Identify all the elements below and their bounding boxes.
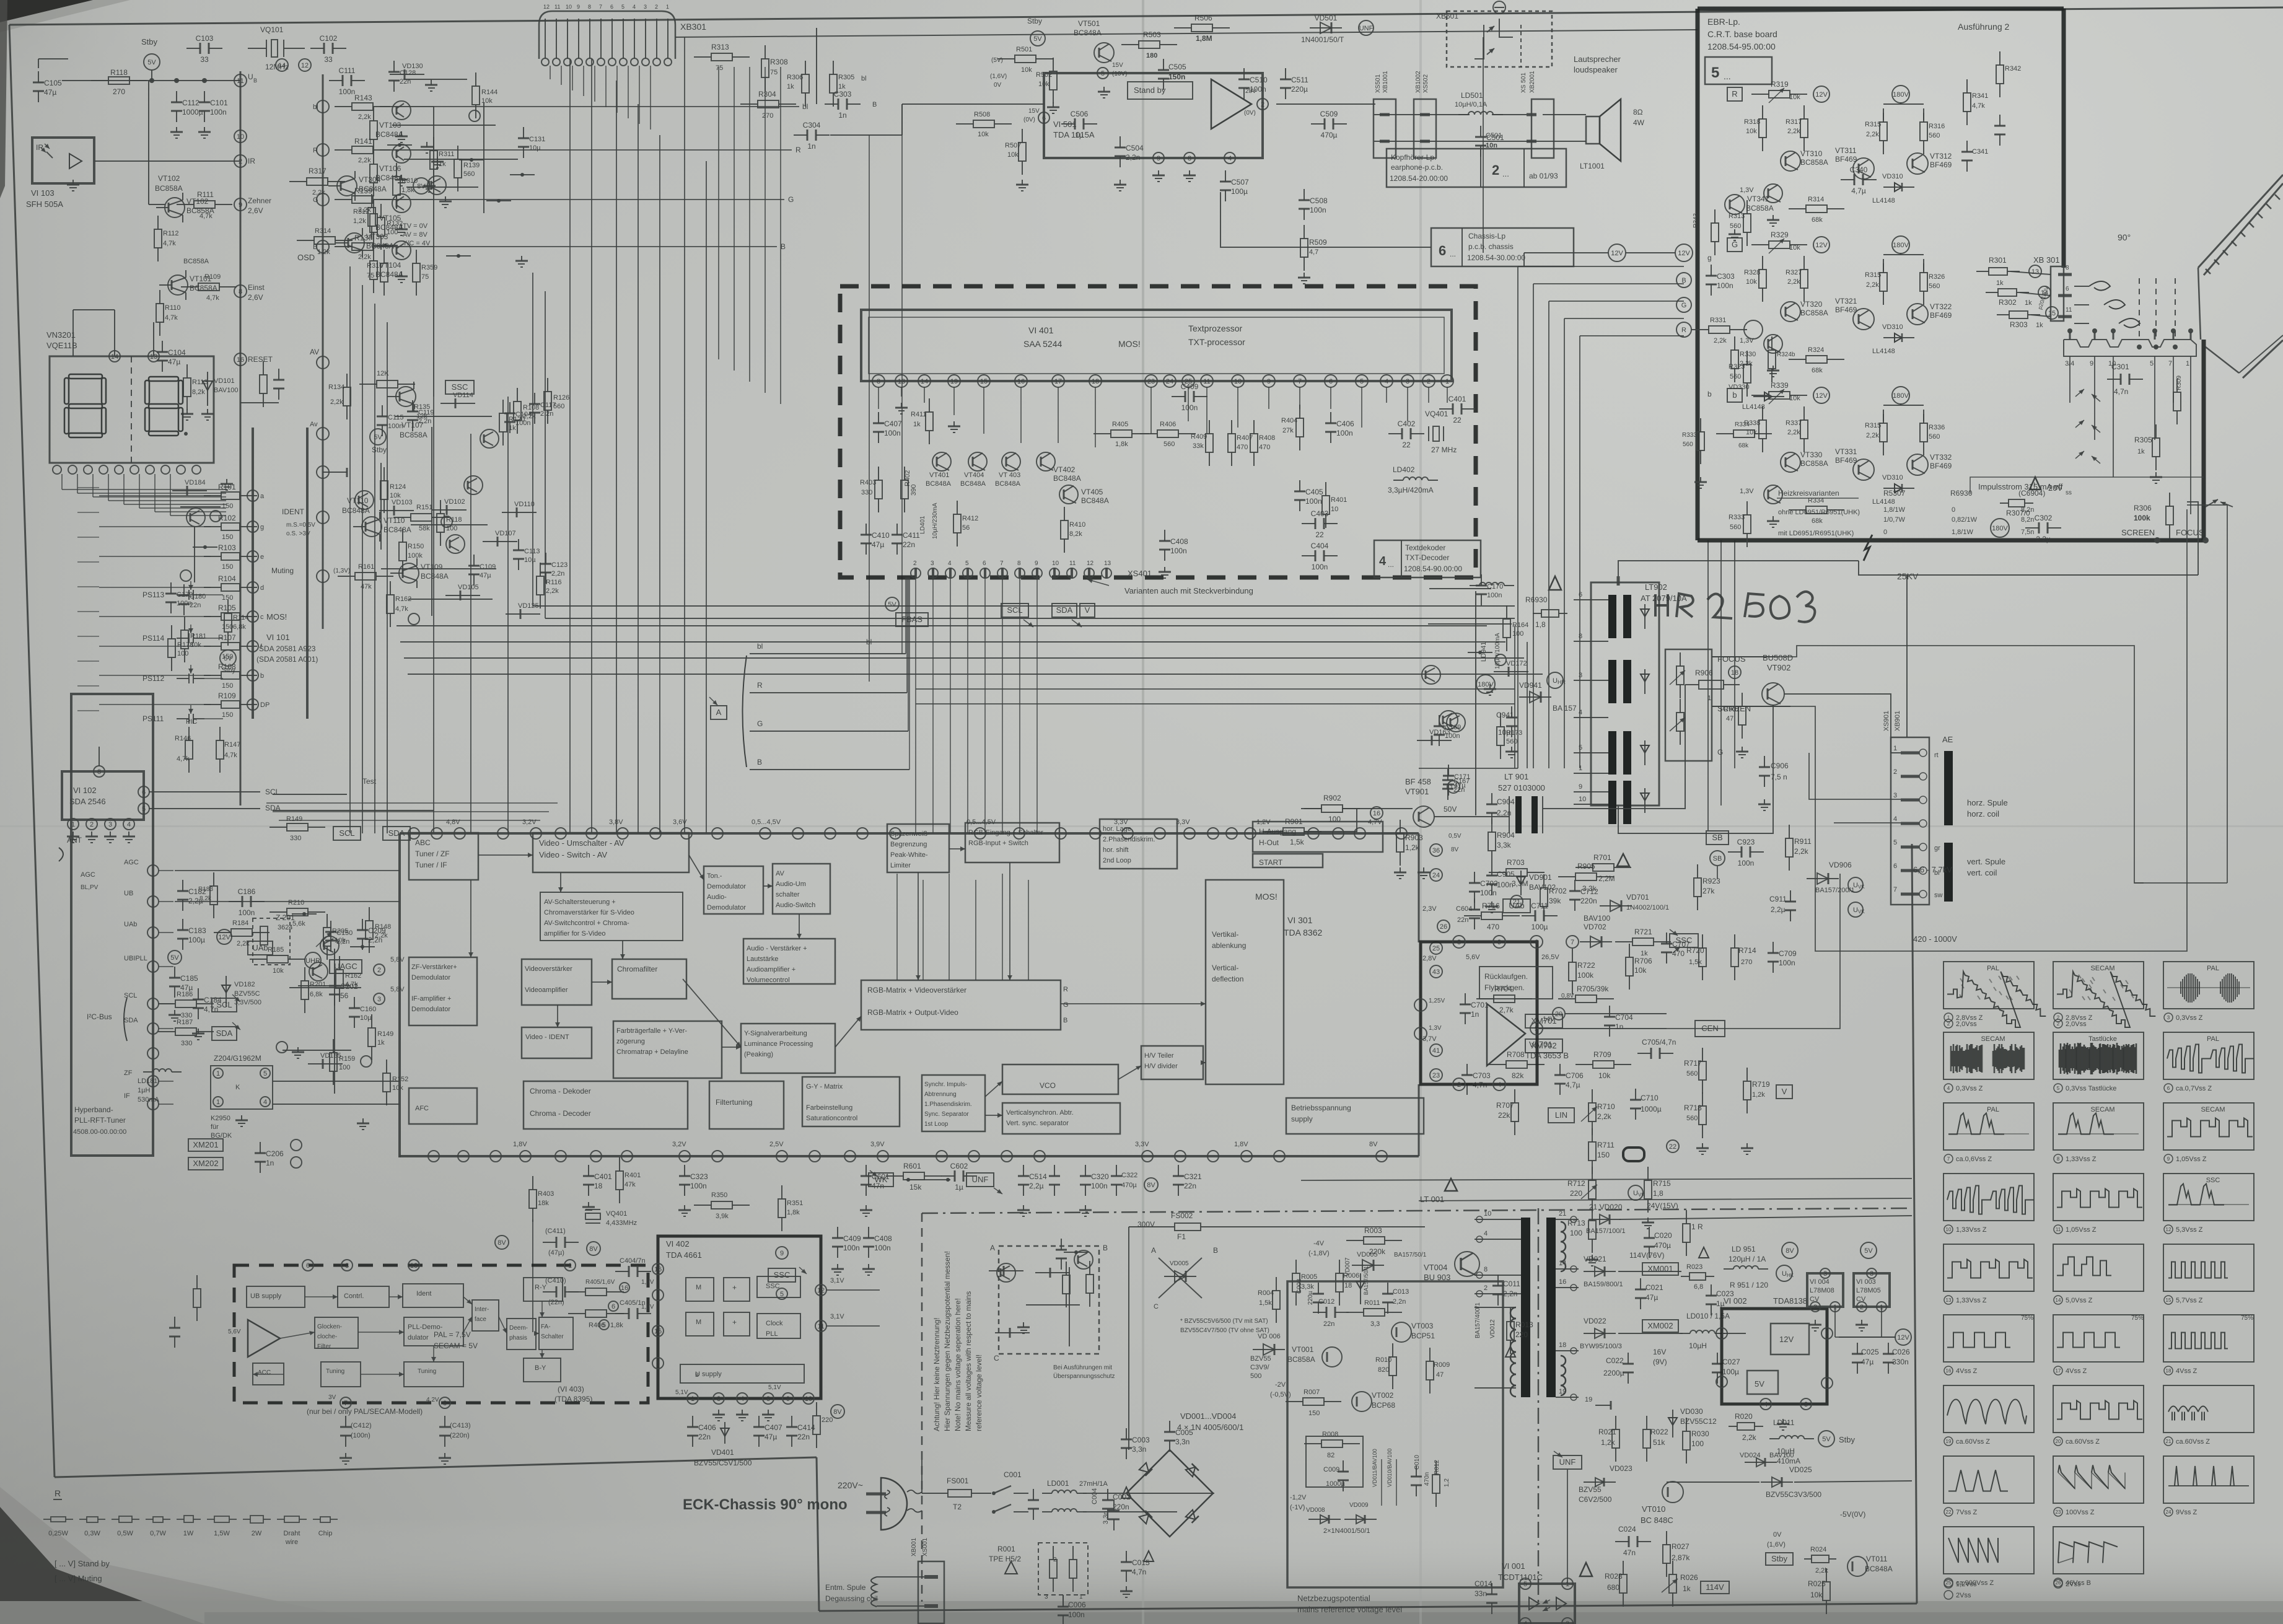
capacitor C005 xyxy=(1169,1421,1170,1432)
block xyxy=(1002,1064,1118,1094)
transistor VT405 xyxy=(1059,485,1078,504)
CRT socket strip xyxy=(2064,340,2196,356)
block B-Y xyxy=(524,1358,561,1382)
svg-text:R023: R023 xyxy=(1686,1263,1702,1271)
capacitor C703 xyxy=(1466,1064,1468,1075)
svg-text:14: 14 xyxy=(921,378,928,385)
svg-text:TDA 3653 B: TDA 3653 B xyxy=(1525,1051,1569,1060)
svg-text:0: 0 xyxy=(1952,506,1955,514)
svg-text:Flybackgen.: Flybackgen. xyxy=(1484,983,1525,992)
svg-text:2: 2 xyxy=(913,560,917,567)
svg-text:1,33Vss Z: 1,33Vss Z xyxy=(2066,1156,2097,1163)
svg-text:5,1V: 5,1V xyxy=(675,1389,688,1396)
connector XS501/XB2001 xyxy=(1531,99,1554,158)
svg-text:3,3k: 3,3k xyxy=(1301,1283,1314,1291)
svg-text:4: 4 xyxy=(1523,1620,1527,1624)
oscillogram 10 xyxy=(1943,1174,2034,1221)
resistor R105 xyxy=(204,616,221,617)
svg-text:120µH / 1A: 120µH / 1A xyxy=(1729,1255,1766,1263)
svg-text:R143: R143 xyxy=(354,94,372,102)
svg-text:10: 10 xyxy=(1484,1210,1491,1218)
svg-text:Tuning: Tuning xyxy=(326,1368,344,1375)
svg-text:10k: 10k xyxy=(1789,395,1800,402)
svg-text:+: + xyxy=(732,1283,737,1292)
svg-text:(C6904): (C6904) xyxy=(2018,489,2045,498)
svg-text:27mH/1A: 27mH/1A xyxy=(1079,1480,1108,1488)
wire xyxy=(408,599,493,600)
diode VD006 xyxy=(1253,1349,1285,1350)
svg-text:L78M08: L78M08 xyxy=(1810,1287,1834,1294)
svg-text:5V: 5V xyxy=(1864,1247,1873,1255)
svg-text:100k: 100k xyxy=(408,552,423,560)
node pin 2 xyxy=(210,511,221,522)
svg-text:...: ... xyxy=(1724,71,1731,81)
node xyxy=(317,356,329,369)
svg-text:6: 6 xyxy=(611,1303,615,1310)
capacitor C179 xyxy=(170,582,172,594)
node SSC xyxy=(768,1268,795,1282)
svg-text:C020: C020 xyxy=(1654,1231,1672,1240)
wire display pin fan xyxy=(61,474,63,489)
svg-text:XB001: XB001 xyxy=(911,1538,918,1556)
svg-text:R210: R210 xyxy=(288,899,304,906)
capacitor C209 xyxy=(362,919,363,930)
svg-text:4,7: 4,7 xyxy=(1309,248,1318,256)
svg-text:2,3V: 2,3V xyxy=(1422,905,1437,913)
svg-text:R6930: R6930 xyxy=(1525,595,1548,604)
transistor VT341 xyxy=(1725,195,1745,214)
capacitor C507 xyxy=(1225,170,1226,182)
svg-text:FS001: FS001 xyxy=(947,1477,969,1485)
svg-text:VD906: VD906 xyxy=(1829,861,1852,869)
svg-text:5: 5 xyxy=(142,805,146,813)
resistor R118 xyxy=(440,500,441,514)
svg-text:Note! No mains voltage sepe: Note! No mains voltage seperation here! xyxy=(953,1298,962,1431)
svg-text:C507: C507 xyxy=(1231,178,1249,187)
svg-text:SCREEN: SCREEN xyxy=(2121,528,2155,537)
node 8 xyxy=(94,766,105,777)
svg-text:C405: C405 xyxy=(1305,488,1323,496)
svg-text:...: ... xyxy=(1388,560,1394,569)
svg-text:H/V divider: H/V divider xyxy=(1144,1063,1178,1070)
svg-text:R141: R141 xyxy=(354,137,372,146)
block VI403 PAL/SECAM dashed xyxy=(234,1265,648,1403)
svg-text:560: 560 xyxy=(1730,373,1741,380)
node U xyxy=(1547,672,1563,688)
svg-text:VD310: VD310 xyxy=(1882,474,1903,481)
ground xyxy=(1085,1205,1086,1210)
svg-text:BF469: BF469 xyxy=(1835,155,1857,164)
svg-text:VT402: VT402 xyxy=(1053,465,1076,474)
svg-text:VD010/BAV100: VD010/BAV100 xyxy=(1387,1449,1393,1487)
transistor VT331 xyxy=(1853,459,1874,480)
svg-text:B: B xyxy=(1213,1246,1218,1255)
ground xyxy=(1773,366,1774,371)
svg-text:R001: R001 xyxy=(997,1545,1015,1553)
svg-text:2.Phasendiskrim.: 2.Phasendiskrim. xyxy=(1103,836,1155,843)
node G xyxy=(1676,297,1691,312)
svg-text:Stby: Stby xyxy=(1839,1435,1856,1444)
svg-text:G: G xyxy=(313,196,318,204)
svg-text:Muting: Muting xyxy=(271,566,294,575)
svg-text:11: 11 xyxy=(1203,378,1210,385)
svg-text:C506: C506 xyxy=(1071,110,1089,118)
capacitor C340 xyxy=(1841,179,1854,180)
svg-text:R711: R711 xyxy=(1597,1141,1615,1149)
svg-text:150: 150 xyxy=(222,533,233,541)
svg-text:UAb: UAb xyxy=(124,921,137,928)
capacitor C303 xyxy=(825,103,838,105)
transistor VT102 xyxy=(165,198,185,217)
svg-text:3,3n: 3,3n xyxy=(1102,1511,1110,1524)
svg-text:68k: 68k xyxy=(1812,517,1823,525)
wire mains isolation boundary xyxy=(922,1208,1912,1213)
svg-text:1: 1 xyxy=(1419,1030,1422,1038)
svg-text:1,33Vss Z: 1,33Vss Z xyxy=(1956,1226,1987,1234)
svg-text:C401: C401 xyxy=(594,1172,612,1181)
svg-text:114V(76V): 114V(76V) xyxy=(1629,1251,1664,1260)
block Tuning xyxy=(321,1362,361,1387)
svg-text:R316: R316 xyxy=(367,262,383,270)
svg-text:LD402: LD402 xyxy=(1393,465,1415,474)
capacitor C341 xyxy=(1966,141,1968,152)
inductor LD011 xyxy=(1769,1438,1779,1439)
svg-text:VD182: VD182 xyxy=(234,981,255,988)
svg-text:VT341: VT341 xyxy=(1747,195,1769,203)
svg-text:Stby: Stby xyxy=(1027,17,1042,25)
ground xyxy=(72,180,74,185)
transistor VT003 xyxy=(1391,1322,1411,1342)
node xyxy=(317,466,329,478)
wire xyxy=(194,526,195,582)
svg-text:3: 3 xyxy=(1893,792,1897,799)
transistor VT122 xyxy=(480,429,499,448)
svg-text:10µ: 10µ xyxy=(360,1014,372,1022)
svg-text:VI 003: VI 003 xyxy=(1856,1278,1876,1286)
node U xyxy=(1848,902,1863,917)
wire I2C lines xyxy=(273,794,347,795)
svg-text:22n: 22n xyxy=(190,602,201,609)
svg-text:C510: C510 xyxy=(1250,76,1268,84)
svg-text:7: 7 xyxy=(1000,560,1004,567)
node 5 xyxy=(1097,68,1108,79)
svg-text:6: 6 xyxy=(983,560,986,567)
node 14 xyxy=(276,59,288,71)
svg-text:22n: 22n xyxy=(1323,1320,1334,1328)
capacitor C015 xyxy=(1126,1551,1127,1562)
inductor LD010 xyxy=(1680,1333,1690,1334)
svg-text:2,2k: 2,2k xyxy=(358,113,371,121)
svg-text:Chassis-Lp: Chassis-Lp xyxy=(1468,232,1505,240)
svg-text:10k: 10k xyxy=(190,641,201,649)
svg-text:82: 82 xyxy=(1327,1452,1334,1459)
svg-text:C131: C131 xyxy=(529,136,545,143)
svg-text:R408: R408 xyxy=(1259,434,1275,442)
svg-text:100n: 100n xyxy=(874,1244,891,1252)
ground xyxy=(91,832,92,836)
svg-text:FOCUS: FOCUS xyxy=(1717,654,1746,664)
svg-text:SDA 20581 A923: SDA 20581 A923 xyxy=(259,644,316,653)
svg-text:5: 5 xyxy=(1523,1581,1527,1588)
svg-text:R150: R150 xyxy=(408,543,424,550)
transistor VT331 xyxy=(1764,485,1782,504)
capacitor C706 xyxy=(1559,1064,1561,1075)
svg-text:VD702: VD702 xyxy=(1584,923,1606,931)
svg-text:R022: R022 xyxy=(1650,1428,1668,1436)
svg-text:6: 6 xyxy=(1439,243,1446,258)
svg-text:C: C xyxy=(994,1354,999,1363)
svg-text:Hier Spannungen gegen Netzb: Hier Spannungen gegen Netzbezugspotentia… xyxy=(943,1251,952,1431)
svg-text:10: 10 xyxy=(1052,560,1059,567)
svg-text:7: 7 xyxy=(2168,360,2172,367)
wire segment xyxy=(350,946,375,947)
svg-text:C711: C711 xyxy=(1531,902,1548,910)
svg-text:ca.0,7Vss Z: ca.0,7Vss Z xyxy=(2176,1085,2212,1092)
svg-text:R: R xyxy=(1681,327,1686,334)
svg-text:3,3n: 3,3n xyxy=(1175,1437,1190,1446)
svg-text:SSC: SSC xyxy=(766,1283,780,1290)
svg-text:H-Out: H-Out xyxy=(1259,838,1279,847)
svg-text:15k: 15k xyxy=(909,1183,922,1192)
svg-text:XB2001: XB2001 xyxy=(1529,71,1536,93)
capacitor C409 xyxy=(837,1227,838,1238)
node 2 xyxy=(234,155,247,167)
svg-text:VT010: VT010 xyxy=(1642,1504,1665,1514)
svg-text:16: 16 xyxy=(1373,810,1380,817)
capacitor C401 xyxy=(588,1165,589,1176)
svg-text:R714: R714 xyxy=(1738,946,1756,955)
diode VD007 xyxy=(1360,1273,1361,1304)
svg-text:2,2k: 2,2k xyxy=(358,157,371,164)
node xyxy=(317,193,329,206)
svg-text:vert. Spule: vert. Spule xyxy=(1967,857,2005,866)
svg-text:3,3: 3,3 xyxy=(1370,1320,1380,1328)
diode VD125 xyxy=(506,613,540,615)
oscillogram 1 xyxy=(1943,962,2034,1009)
svg-text:100n: 100n xyxy=(843,1244,860,1252)
svg-text:C401: C401 xyxy=(1448,395,1466,403)
ground xyxy=(297,1047,299,1052)
svg-text:supply: supply xyxy=(1291,1115,1313,1123)
node 5V xyxy=(220,650,236,666)
potentiometer FOCUS/SCREEN xyxy=(1665,649,1712,761)
svg-text:AV-Switchcontrol + Chroma-: AV-Switchcontrol + Chroma- xyxy=(544,920,629,927)
svg-text:R112: R112 xyxy=(163,230,178,237)
svg-text:C703: C703 xyxy=(1473,1071,1491,1080)
resistor R124 xyxy=(383,467,385,481)
svg-text:220µ: 220µ xyxy=(1307,1291,1314,1305)
svg-text:6: 6 xyxy=(142,789,146,796)
svg-text:BA157/200/1: BA157/200/1 xyxy=(1815,887,1855,894)
svg-text:C406: C406 xyxy=(1336,419,1354,428)
svg-text:9: 9 xyxy=(239,201,242,209)
svg-text:2: 2 xyxy=(655,4,658,10)
svg-text:VD107: VD107 xyxy=(495,530,516,537)
transistor VT332 xyxy=(1907,454,1928,475)
svg-text:VI 402: VI 402 xyxy=(666,1239,690,1249)
oscillogram 22 xyxy=(1943,1456,2034,1503)
svg-text:(9V): (9V) xyxy=(1653,1358,1667,1366)
svg-text:(1,3V): (1,3V) xyxy=(333,568,350,574)
ground xyxy=(1734,229,1735,234)
svg-text:TDA8138: TDA8138 xyxy=(1773,1296,1807,1306)
ground xyxy=(1120,180,1121,185)
node xyxy=(247,699,258,710)
capacitor C003 xyxy=(1126,1428,1127,1439)
svg-text:BF469: BF469 xyxy=(1930,160,1952,169)
node 36 xyxy=(1430,844,1442,856)
transistor VT403 xyxy=(1002,452,1020,471)
block SSC xyxy=(757,1276,800,1297)
svg-text:MOS!: MOS! xyxy=(1255,892,1277,902)
svg-text:10k: 10k xyxy=(1810,1591,1823,1599)
resistor R195 xyxy=(1089,1261,1090,1275)
diode VD3x0 xyxy=(1883,187,1914,188)
svg-text:cloche-: cloche- xyxy=(317,1333,337,1340)
svg-text:6: 6 xyxy=(1825,1330,1829,1338)
filter Z201 xyxy=(260,926,268,945)
svg-text:VD310: VD310 xyxy=(1882,173,1903,180)
svg-text:SECAM: SECAM xyxy=(2201,1106,2225,1113)
svg-text:0,3Vss Tastlücke: 0,3Vss Tastlücke xyxy=(2066,1085,2116,1092)
svg-text:12: 12 xyxy=(543,4,550,10)
ground xyxy=(401,175,402,180)
diode VD941 xyxy=(1519,696,1551,698)
block Betriebsspannung xyxy=(1286,1098,1424,1134)
svg-text:EBR-Lp.: EBR-Lp. xyxy=(1707,17,1740,27)
diode VD163 xyxy=(1417,740,1452,741)
svg-text:22: 22 xyxy=(1315,530,1324,539)
svg-text:BF 458: BF 458 xyxy=(1405,777,1431,786)
capacitor C101 xyxy=(204,91,205,102)
svg-text:VD941: VD941 xyxy=(1519,681,1542,690)
svg-text:1.Phasendiskrim.: 1.Phasendiskrim. xyxy=(924,1101,972,1108)
svg-text:390: 390 xyxy=(910,485,918,496)
wire G line xyxy=(750,731,908,732)
capacitor C923 xyxy=(1728,851,1742,853)
svg-text:VT002: VT002 xyxy=(1372,1391,1394,1400)
paper edge shadow left xyxy=(0,0,7,198)
oscillogram 16 xyxy=(1943,1315,2034,1362)
svg-text:R508: R508 xyxy=(974,111,990,118)
svg-text:UAGC: UAGC xyxy=(334,962,357,971)
svg-text:100: 100 xyxy=(446,525,457,532)
svg-text:UBIPLL: UBIPLL xyxy=(124,955,147,962)
svg-text:VT011: VT011 xyxy=(1866,1555,1888,1563)
svg-text:10: 10 xyxy=(1946,1227,1952,1232)
block tuner hyperband xyxy=(71,694,153,1156)
svg-text:VT322: VT322 xyxy=(1930,302,1952,311)
diode VD024 xyxy=(1745,1462,1777,1463)
wire audio out xyxy=(1276,103,1375,105)
transistor VT321 xyxy=(1853,309,1874,330)
oscillogram 24 xyxy=(2163,1456,2254,1503)
wire VI401 pin row xyxy=(872,375,885,387)
node 5V xyxy=(1818,1431,1834,1447)
diode VD102 xyxy=(432,509,467,511)
capacitor C409 xyxy=(1172,396,1185,397)
legend resistor 2W xyxy=(243,1519,250,1520)
inductor LD001 xyxy=(1042,1493,1052,1494)
wire OSD bus xyxy=(322,74,324,629)
svg-text:b: b xyxy=(260,672,264,680)
diode VD022 xyxy=(1584,1333,1616,1334)
svg-text:VT312: VT312 xyxy=(1930,152,1952,160)
svg-text:C501: C501 xyxy=(1486,132,1502,139)
svg-text:19: 19 xyxy=(950,378,958,385)
block Tuning xyxy=(404,1362,463,1387)
node 12V xyxy=(1813,86,1829,102)
svg-text:10µH/230mA: 10µH/230mA xyxy=(932,503,939,539)
svg-text:5V: 5V xyxy=(170,954,179,962)
svg-text:10µ: 10µ xyxy=(524,556,536,564)
node 18 xyxy=(1729,666,1741,678)
svg-text:9: 9 xyxy=(786,1395,790,1403)
svg-text:R147: R147 xyxy=(224,741,240,748)
wire video lines xyxy=(675,30,1698,37)
svg-text:C015: C015 xyxy=(1132,1558,1150,1567)
node SSC xyxy=(1670,934,1698,947)
svg-text:Audio-Switch: Audio-Switch xyxy=(776,902,815,909)
svg-text:R401: R401 xyxy=(1331,496,1347,504)
transistor VT404 xyxy=(968,452,987,471)
svg-text:R302: R302 xyxy=(1999,298,2017,307)
node XM701 xyxy=(1525,1014,1562,1028)
switch standby xyxy=(906,1179,950,1180)
svg-text:R341: R341 xyxy=(1972,92,1988,100)
svg-text:SDA: SDA xyxy=(216,1029,233,1038)
svg-text:R021: R021 xyxy=(1598,1428,1616,1436)
svg-text:B: B xyxy=(757,758,762,766)
transistor VT105 xyxy=(392,194,411,213)
svg-text:4,7k: 4,7k xyxy=(1972,102,1985,110)
svg-text:56: 56 xyxy=(962,524,970,532)
svg-text:R328: R328 xyxy=(1744,269,1760,276)
capacitor C180 xyxy=(183,584,185,595)
node 180V xyxy=(1892,86,1909,103)
svg-text:R409: R409 xyxy=(1191,433,1207,441)
svg-text:16: 16 xyxy=(1946,1368,1952,1374)
paper edge shadow top-left xyxy=(0,0,130,32)
svg-text:C304: C304 xyxy=(803,121,821,129)
svg-text:R120: R120 xyxy=(509,416,525,423)
ground xyxy=(1304,273,1305,278)
svg-text:1: 1 xyxy=(1445,378,1449,385)
svg-text:FBAS: FBAS xyxy=(901,615,922,624)
svg-text:100: 100 xyxy=(1570,1229,1582,1237)
wire xyxy=(381,568,496,569)
svg-text:R114: R114 xyxy=(233,614,248,621)
svg-text:R305: R305 xyxy=(838,74,854,81)
svg-text:e: e xyxy=(260,553,264,561)
svg-text:C112: C112 xyxy=(182,99,199,107)
node 6 xyxy=(138,786,149,797)
node XM002 xyxy=(1642,1320,1678,1332)
svg-text:Textdekoder: Textdekoder xyxy=(1405,543,1445,552)
svg-text:47µ: 47µ xyxy=(168,358,180,366)
transistor VT190 xyxy=(997,1263,1015,1282)
node 5 xyxy=(138,803,149,814)
svg-text:Luminance Processing: Luminance Processing xyxy=(744,1040,813,1048)
capacitor C406 xyxy=(692,1416,693,1427)
svg-text:B-Y: B-Y xyxy=(535,1364,546,1372)
svg-text:1,2k: 1,2k xyxy=(317,248,330,256)
ground xyxy=(1592,1255,1593,1260)
svg-text:4,7k: 4,7k xyxy=(177,755,190,763)
svg-text:UHR: UHR xyxy=(305,957,320,965)
svg-text:LT1001: LT1001 xyxy=(1580,162,1605,170)
svg-text:ss: ss xyxy=(2066,489,2072,496)
